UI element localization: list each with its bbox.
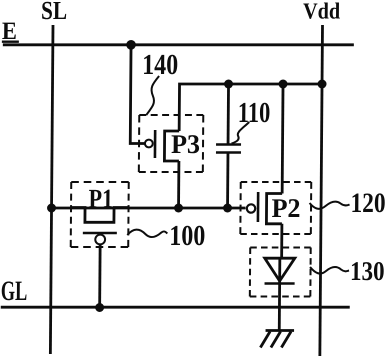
svg-text:120: 120	[350, 188, 385, 219]
label 100	[169, 220, 205, 252]
underline of E	[2, 41, 19, 43]
label GL	[1, 276, 28, 307]
wire node row from SL to P2 gate	[52, 207, 246, 210]
leader squiggle for 100	[127, 230, 167, 237]
wire GL horizontal rail	[1, 306, 350, 309]
svg-text:110: 110	[238, 97, 271, 129]
svg-text:GL: GL	[1, 276, 28, 307]
capacitor C 110 top lead	[227, 84, 230, 144]
capacitor C 110 top plate	[216, 143, 241, 146]
label E	[2, 18, 17, 45]
transistor P2 gate bubble	[247, 204, 255, 212]
transistor P3 gate bubble	[145, 140, 153, 148]
transistor P1 label	[88, 184, 113, 214]
leader squiggle for 130	[310, 267, 349, 274]
wire P3 drain to node row	[177, 161, 180, 208]
wire E horizontal rail	[3, 43, 354, 46]
label 120	[350, 188, 385, 219]
transistor P3 channel path	[164, 131, 179, 161]
ground bar	[266, 329, 295, 332]
svg-text:SL: SL	[41, 0, 67, 25]
transistor P3 dashed box	[139, 115, 203, 172]
node dot P2 source tap	[278, 80, 287, 89]
diode D 130 cathode bar	[265, 282, 295, 285]
capacitor C 110 bottom plate	[216, 151, 241, 154]
svg-text:P1: P1	[88, 184, 113, 214]
svg-text:P3: P3	[171, 129, 200, 159]
label 130	[350, 256, 385, 286]
transistor P2 gate bar	[257, 192, 260, 222]
transistor P1 gate bar	[83, 232, 117, 235]
capacitor C 110 bottom lead	[226, 153, 229, 209]
label 110	[238, 97, 271, 129]
leader squiggle for 140	[146, 76, 159, 115]
leader squiggle for 110	[232, 122, 250, 144]
transistor P1 gate bubble	[95, 235, 105, 245]
transistor P1 channel path (notch)	[71, 208, 129, 223]
node dot top rail to Vdd junction	[317, 80, 326, 89]
wire P3 gate feed from E line	[130, 45, 146, 144]
wire top rail from P3 drain corner to Vdd	[179, 84, 322, 131]
leader squiggle for 120	[310, 202, 350, 209]
ground stroke 1	[260, 332, 270, 348]
node dot P1 gate on GL	[95, 303, 104, 312]
transistor P3 gate bar	[154, 130, 157, 158]
transistor P2 dashed box	[240, 182, 311, 234]
diode D 130 dashed box	[250, 248, 311, 297]
node dot capacitor bottom junction	[223, 204, 232, 213]
label 140	[142, 49, 178, 81]
svg-text:130: 130	[350, 256, 385, 286]
svg-text:P2: P2	[271, 193, 300, 223]
ground stroke 2	[271, 332, 281, 348]
wire P2 source from top rail	[281, 84, 285, 194]
label SL	[41, 0, 67, 25]
svg-text:100: 100	[169, 220, 205, 252]
node dot on E line feeding P3 gate	[126, 40, 136, 50]
wire P1 gate lead down to GL	[98, 244, 101, 307]
wire Vdd vertical line	[320, 25, 323, 356]
node dot on SL line at node row	[47, 204, 56, 213]
wire diode lead through to ground	[278, 258, 281, 330]
node dot capacitor top tap	[224, 80, 233, 89]
transistor P1 dashed box	[71, 182, 129, 247]
label Vdd	[303, 0, 340, 23]
transistor P3 label	[171, 129, 200, 159]
diode D 130 triangle	[265, 258, 295, 281]
transistor P2 label	[271, 193, 300, 223]
node dot P3 drain junction	[174, 204, 183, 213]
wire SL vertical line	[50, 25, 53, 354]
svg-text:Vdd: Vdd	[303, 0, 340, 23]
wire P2 drain to diode	[280, 224, 283, 258]
ground stroke 3	[281, 332, 291, 348]
transistor P2 channel path	[266, 194, 282, 224]
svg-text:140: 140	[142, 49, 178, 81]
